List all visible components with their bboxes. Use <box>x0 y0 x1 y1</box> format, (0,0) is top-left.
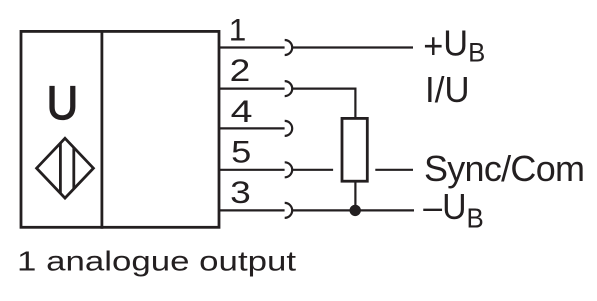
svg-text:5: 5 <box>231 135 251 170</box>
svg-text:1 analogue output: 1 analogue output <box>17 245 296 277</box>
svg-text:I/U: I/U <box>425 70 470 111</box>
svg-text:Sync/Com: Sync/Com <box>424 148 585 189</box>
svg-text:+UB: +UB <box>423 24 485 68</box>
svg-text:1: 1 <box>229 12 247 48</box>
svg-text:U: U <box>47 77 79 130</box>
svg-text:3: 3 <box>230 176 251 211</box>
svg-text:4: 4 <box>231 94 253 129</box>
svg-text:–UB: –UB <box>423 187 483 234</box>
svg-text:2: 2 <box>230 53 251 88</box>
